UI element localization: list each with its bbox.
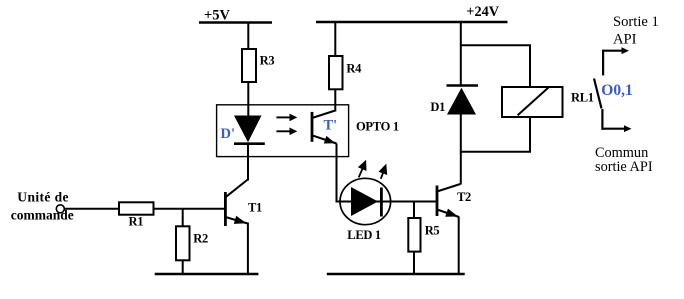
switch bottom terminal arrow xyxy=(602,125,631,132)
LED LED1 xyxy=(340,178,391,242)
diode D1 xyxy=(430,86,478,115)
light arrow 1 xyxy=(276,114,297,122)
svg-text:D': D' xyxy=(221,126,236,142)
wire branch to relay top xyxy=(461,45,530,87)
wire R2 to ground xyxy=(182,260,184,274)
light arrow 2 xyxy=(276,128,297,136)
svg-text:LED 1: LED 1 xyxy=(347,228,381,242)
wire T1 emitter to ground xyxy=(247,223,249,275)
relay RL1 coil xyxy=(502,87,594,117)
optocoupler box OPTO 1 xyxy=(217,105,349,157)
switch top terminal arrow xyxy=(603,47,629,54)
wire R5 to ground xyxy=(413,252,415,274)
transistor T2 xyxy=(437,184,471,217)
svg-text:RL1: RL1 xyxy=(571,91,594,105)
resistor R4 xyxy=(329,56,362,89)
svg-text:Sortie 1: Sortie 1 xyxy=(613,14,659,30)
svg-text:+24V: +24V xyxy=(466,4,499,20)
wire T2 emitter to ground xyxy=(458,217,460,275)
switch blade O0,1 xyxy=(594,79,602,109)
svg-text:T1: T1 xyxy=(248,201,262,215)
wire LED line to T2 base xyxy=(336,201,438,203)
wire D' cathode to T1 collector xyxy=(247,144,249,181)
+24V rail xyxy=(316,21,508,24)
resistor R5 xyxy=(408,218,439,252)
svg-text:O0,1: O0,1 xyxy=(601,82,632,99)
svg-text:Unité de: Unité de xyxy=(17,189,69,204)
wire junction to R2 xyxy=(182,209,184,227)
resistor R2 xyxy=(176,226,208,260)
wire R1 to T1 base xyxy=(154,208,226,210)
wire switch top xyxy=(602,50,604,76)
svg-text:R5: R5 xyxy=(425,224,440,238)
opto LED D' xyxy=(221,116,265,144)
wire junction to R5 xyxy=(413,202,415,220)
ground rail right xyxy=(327,273,465,275)
svg-text:T2: T2 xyxy=(457,190,471,204)
wire relay bottom to junction xyxy=(461,117,530,152)
svg-text:D1: D1 xyxy=(430,100,445,114)
Sortie 1 API label xyxy=(613,14,659,47)
svg-text:OPTO 1: OPTO 1 xyxy=(356,120,399,134)
svg-text:T': T' xyxy=(324,117,338,133)
wire switch bottom xyxy=(601,109,603,130)
resistor R3 xyxy=(242,49,274,82)
wire R3 to opto LED xyxy=(247,82,249,117)
svg-text:commande: commande xyxy=(11,208,74,223)
opto phototransistor T' xyxy=(312,111,337,144)
LED emission arrow 2 xyxy=(379,164,388,179)
ground rail left xyxy=(155,273,259,275)
wire R4 to T' collector xyxy=(334,89,336,111)
svg-text:R3: R3 xyxy=(260,54,275,68)
transistor T1 xyxy=(225,179,262,226)
input terminal circle xyxy=(56,205,64,213)
svg-text:sortie API: sortie API xyxy=(595,159,653,175)
wire rail to R3 xyxy=(247,23,249,51)
Unité de commande label xyxy=(11,189,74,222)
wire T' emitter down xyxy=(336,144,338,202)
RL1 contact label Commun sortie API xyxy=(595,145,653,175)
svg-text:R4: R4 xyxy=(346,61,362,75)
+5V rail xyxy=(199,21,272,24)
resistor R1 xyxy=(119,202,154,228)
wire D1 to T2 collector xyxy=(460,114,462,185)
svg-text:R2: R2 xyxy=(193,231,208,245)
wire terminal to R1 xyxy=(64,208,119,210)
svg-text:R1: R1 xyxy=(129,215,144,229)
svg-text:API: API xyxy=(613,32,637,48)
wire rail to D1 xyxy=(460,22,462,86)
wire rail to R4 xyxy=(334,22,336,57)
LED emission arrow 1 xyxy=(358,160,367,178)
